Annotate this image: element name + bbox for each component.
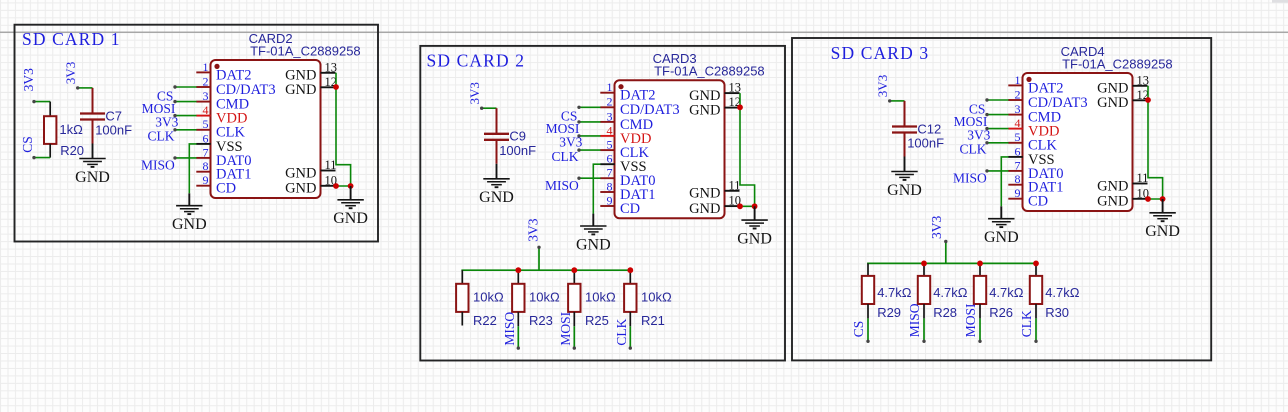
svg-text:R20: R20	[60, 143, 84, 158]
svg-text:13: 13	[325, 60, 338, 74]
CARD2 part name TF-01A_C2889258	[250, 43, 361, 58]
svg-text:4.7kΩ: 4.7kΩ	[989, 285, 1024, 300]
svg-text:CD/DAT3: CD/DAT3	[1028, 95, 1088, 111]
svg-text:R21: R21	[641, 313, 665, 328]
svg-text:11: 11	[325, 158, 337, 172]
svg-text:GND: GND	[1097, 194, 1128, 210]
svg-text:2: 2	[1015, 87, 1021, 101]
svg-text:MISO: MISO	[502, 312, 517, 346]
sd-card connector CARD3 body	[615, 80, 725, 218]
wire CARD2 pin 12 to pin 10 and ground	[336, 73, 351, 186]
ground below C12	[887, 157, 922, 199]
svg-text:DAT2: DAT2	[216, 67, 251, 83]
svg-text:R22: R22	[473, 313, 497, 328]
capacitor C7	[80, 88, 105, 144]
svg-text:3V3: 3V3	[929, 216, 944, 239]
svg-text:10kΩ: 10kΩ	[585, 290, 616, 305]
svg-text:CD/DAT3: CD/DAT3	[216, 82, 276, 98]
svg-text:CLK: CLK	[148, 129, 175, 144]
junction on 3V3 bus at R25	[571, 267, 577, 273]
svg-text:GND: GND	[576, 236, 611, 253]
designator label R30	[1045, 305, 1069, 320]
wire 3V3 bus over resistor network	[461, 269, 630, 271]
svg-text:SD CARD 3: SD CARD 3	[831, 43, 929, 63]
wire CS to R20	[32, 156, 50, 159]
svg-text:3V3: 3V3	[21, 68, 36, 91]
sd-card connector CARD4 body	[1023, 73, 1133, 211]
junction at CARD2 pin 12	[333, 84, 339, 90]
wire MISO below R23	[517, 312, 520, 350]
resistor R25	[568, 270, 580, 312]
svg-text:1: 1	[203, 60, 209, 74]
resistor R23	[512, 270, 524, 312]
designator label R29	[877, 305, 901, 320]
CARD4 pin 2 CD/DAT3	[1008, 87, 1087, 111]
svg-text:GND: GND	[285, 82, 316, 98]
wire CLK to CARD4 pin 5	[985, 141, 1008, 144]
designator CARD3	[653, 51, 697, 66]
svg-text:6: 6	[607, 152, 613, 166]
designator label R28	[933, 305, 957, 320]
resistor R29	[862, 263, 874, 304]
svg-text:MOSI: MOSI	[558, 311, 573, 345]
svg-text:GND: GND	[285, 165, 316, 181]
wire 3V3 tap to bus	[537, 246, 540, 271]
svg-text:GND: GND	[1097, 95, 1128, 111]
wire CARD4 pin 6 VSS to ground	[1001, 157, 1008, 206]
svg-text:SD CARD 1: SD CARD 1	[22, 29, 120, 49]
CARD4 pin 11 GND	[1097, 171, 1148, 194]
svg-text:3V3: 3V3	[63, 62, 78, 84]
svg-text:5: 5	[607, 138, 613, 152]
CARD2 pin 9 CD	[196, 173, 236, 197]
CARD3 part name TF-01A_C2889258	[654, 64, 765, 79]
svg-text:MISO: MISO	[141, 158, 175, 173]
net label 3V3 for C7	[63, 62, 78, 84]
CARD3 pin 8 DAT1	[600, 179, 655, 203]
CARD4 pin 1 DAT2	[1008, 73, 1063, 97]
junction at CARD4 pin 10	[1145, 196, 1151, 202]
value 1k&#937; of R20	[59, 122, 83, 137]
CARD4 pin 5 CLK	[1008, 130, 1057, 154]
CARD2 pin 11 GND	[285, 158, 336, 181]
svg-text:3V3: 3V3	[875, 75, 890, 97]
value 100nF of C9	[499, 143, 536, 158]
wire MISO to CARD3 pin 7 DAT0	[577, 177, 600, 180]
svg-text:8: 8	[607, 179, 613, 193]
net label 3V3 for C12	[875, 75, 890, 97]
svg-text:8: 8	[1015, 172, 1021, 186]
resistor R26	[974, 263, 986, 304]
svg-text:CD: CD	[216, 181, 236, 197]
svg-text:100nF: 100nF	[907, 136, 944, 151]
svg-text:5: 5	[203, 117, 209, 131]
svg-text:GND: GND	[887, 182, 922, 199]
net label CLK	[1019, 310, 1034, 337]
svg-text:9: 9	[203, 173, 209, 187]
svg-text:CD: CD	[620, 201, 640, 217]
wire CARD4 pin 12 to pin 10 and ground	[1148, 86, 1163, 199]
CARD4 pin 10 GND	[1097, 186, 1149, 209]
svg-text:MISO: MISO	[545, 178, 579, 193]
net label MISO	[502, 312, 517, 346]
CARD4 pin 6 VSS	[1008, 144, 1054, 168]
ground below CARD3	[576, 214, 611, 254]
net label MOSI	[963, 303, 978, 337]
CARD4 pin 8 DAT1	[1008, 172, 1063, 196]
svg-text:TF-01A_C2889258: TF-01A_C2889258	[1062, 56, 1173, 71]
wire 3V3 to C7	[76, 86, 93, 89]
svg-text:2: 2	[607, 95, 613, 109]
svg-text:CLK: CLK	[1019, 310, 1034, 337]
wire MISO below R28	[922, 304, 925, 343]
svg-text:GND: GND	[333, 210, 368, 227]
CARD2 pin 4 VDD	[196, 103, 247, 127]
value 10k&#937; of R22	[473, 290, 504, 305]
capacitor C12	[892, 101, 917, 157]
svg-text:CS: CS	[851, 321, 866, 338]
net label 3V3 for C9	[467, 82, 482, 104]
CARD3 pin 2 CD/DAT3	[600, 95, 679, 119]
CARD3 pin 13 GND	[689, 81, 741, 104]
svg-text:8: 8	[203, 159, 209, 173]
svg-text:C9: C9	[509, 129, 526, 144]
ground below CARD2	[172, 193, 207, 233]
ground below C7	[75, 144, 110, 186]
wire MISO to CARD2 pin 7 DAT0	[173, 156, 196, 159]
wire CLK to CARD3 pin 5	[577, 148, 600, 151]
resistor R30	[1030, 263, 1042, 304]
designator label R22	[473, 313, 497, 328]
svg-text:9: 9	[1015, 186, 1021, 200]
CARD2 pin 1 DAT2	[196, 60, 251, 84]
ground below C9	[479, 164, 514, 206]
CARD4 pin-1 marker dot	[1026, 77, 1031, 82]
svg-text:4: 4	[203, 103, 209, 117]
net label 3V3	[967, 127, 990, 142]
net label 3V3	[559, 135, 582, 150]
junction at CARD3 pin 12	[737, 104, 743, 110]
CARD3 pin 3 CMD	[600, 109, 653, 133]
net label CLK	[148, 129, 175, 144]
value 100nF of C7	[95, 123, 132, 138]
svg-text:TF-01A_C2889258: TF-01A_C2889258	[250, 43, 361, 58]
svg-text:DAT2: DAT2	[620, 88, 655, 104]
sheet corner marker top-right	[1272, 0, 1288, 3]
svg-text:13: 13	[1137, 73, 1150, 87]
net label MOSI	[142, 101, 176, 116]
CARD3 pin 11 GND	[689, 178, 740, 201]
net label CLK	[552, 149, 579, 164]
net label MISO	[953, 171, 987, 186]
CARD4 pin 9 CD	[1008, 186, 1048, 210]
wire CLK below R21	[629, 312, 632, 350]
svg-text:7: 7	[607, 166, 613, 180]
svg-text:CLK: CLK	[614, 318, 629, 345]
junction at CARD2 pin 10	[333, 183, 339, 189]
junction at ground tap right of CARD3	[752, 203, 758, 209]
svg-text:R25: R25	[585, 313, 609, 328]
junction at CARD3 pin 10	[737, 203, 743, 209]
svg-text:7: 7	[1015, 158, 1021, 172]
CARD3 pin-1 marker dot	[618, 84, 623, 89]
svg-text:4: 4	[607, 123, 613, 137]
svg-text:GND: GND	[479, 189, 514, 206]
title SD CARD 2	[427, 51, 525, 71]
designator C7	[105, 108, 122, 123]
ground right of CARD3	[737, 206, 772, 247]
svg-text:GND: GND	[285, 181, 316, 197]
net label MISO	[141, 158, 175, 173]
svg-text:3V3: 3V3	[467, 82, 482, 104]
net label 3V3 above network	[526, 218, 541, 241]
svg-text:4.7kΩ: 4.7kΩ	[1045, 285, 1080, 300]
svg-text:3V3: 3V3	[526, 218, 541, 241]
sd-card connector CARD2 body	[211, 60, 321, 198]
svg-text:6: 6	[1015, 144, 1021, 158]
wire MOSI below R26	[978, 304, 981, 343]
svg-text:CD/DAT3: CD/DAT3	[620, 102, 680, 118]
wire CLK to CARD2 pin 5	[173, 128, 196, 131]
svg-text:SD CARD 2: SD CARD 2	[427, 51, 525, 71]
value 10k&#937; of R23	[529, 290, 560, 305]
SD CARD 3 group box	[792, 38, 1211, 360]
svg-text:11: 11	[1137, 171, 1149, 185]
svg-text:5: 5	[1015, 130, 1021, 144]
svg-text:4.7kΩ: 4.7kΩ	[933, 285, 968, 300]
wire 3V3 to C12	[888, 99, 905, 102]
value 4.7k&#937; of R30	[1045, 285, 1080, 300]
wire CARD2 pin 6 VSS to ground	[189, 144, 196, 193]
junction on 3V3 bus at R30	[1033, 261, 1039, 267]
svg-text:GND: GND	[689, 201, 720, 217]
svg-text:3: 3	[1015, 102, 1021, 116]
svg-text:7: 7	[203, 145, 209, 159]
svg-text:MISO: MISO	[907, 303, 922, 337]
svg-text:MOSI: MOSI	[963, 303, 978, 337]
svg-text:C12: C12	[917, 121, 941, 136]
designator label R20	[60, 143, 84, 158]
net label 3V3 above network	[929, 216, 944, 239]
CARD3 pin 4 VDD	[600, 123, 651, 147]
wire MOSI below R25	[573, 312, 576, 350]
svg-text:6: 6	[203, 131, 209, 145]
CARD3 pin 7 DAT0	[600, 166, 655, 190]
value 10k&#937; of R25	[585, 290, 616, 305]
svg-text:3V3: 3V3	[967, 127, 990, 142]
CARD4 pin 4 VDD	[1008, 116, 1059, 140]
net label CLK	[614, 318, 629, 345]
wire CS to CARD4 pin 2	[985, 98, 1008, 101]
svg-text:GND: GND	[737, 230, 772, 247]
svg-text:C7: C7	[105, 108, 122, 123]
designator CARD4	[1061, 44, 1105, 59]
SD CARD 2 group box	[420, 46, 785, 361]
CARD4 pin 13 GND	[1097, 73, 1149, 96]
junction on 3V3 bus at R28	[921, 261, 927, 267]
svg-text:10kΩ: 10kΩ	[473, 290, 504, 305]
svg-text:DAT2: DAT2	[1028, 80, 1063, 96]
junction on 3V3 bus at R21	[627, 267, 633, 273]
svg-text:GND: GND	[689, 186, 720, 202]
designator label R21	[641, 313, 665, 328]
svg-text:100nF: 100nF	[499, 143, 536, 158]
designator label R26	[989, 305, 1013, 320]
wire MOSI to CARD3 pin 3	[577, 120, 600, 123]
svg-text:CLK: CLK	[960, 142, 987, 157]
resistor R20	[44, 102, 56, 158]
CARD2 pin 2 CD/DAT3	[196, 74, 275, 98]
CARD2 pin 13 GND	[285, 60, 337, 83]
CARD3 pin 5 CLK	[600, 138, 649, 162]
value 100nF of C12	[907, 136, 944, 151]
wire 3V3 to CARD4 pin 4 VDD	[985, 127, 1008, 130]
SD CARD 1 group box	[15, 25, 379, 242]
CARD3 pin 1 DAT2	[600, 80, 655, 104]
svg-text:GND: GND	[984, 229, 1019, 246]
wire CS to CARD2 pin 2	[173, 85, 196, 88]
svg-text:3V3: 3V3	[155, 114, 178, 129]
svg-text:GND: GND	[172, 216, 207, 233]
svg-text:9: 9	[607, 193, 613, 207]
svg-text:1: 1	[607, 80, 613, 94]
net label CS	[851, 321, 866, 338]
svg-text:11: 11	[729, 178, 741, 192]
value 4.7k&#937; of R29	[877, 285, 912, 300]
title SD CARD 3	[831, 43, 929, 63]
svg-text:2: 2	[203, 74, 209, 88]
net label MOSI	[546, 121, 580, 136]
junction at CARD4 pin 12	[1145, 97, 1151, 103]
ground below CARD4	[984, 206, 1019, 246]
svg-text:MISO: MISO	[953, 171, 987, 186]
designator label R25	[585, 313, 609, 328]
CARD3 pin 9 CD	[600, 193, 640, 217]
designator C9	[509, 129, 526, 144]
wire 3V3 tap to bus	[944, 240, 947, 264]
net label CS for R20	[20, 136, 35, 153]
svg-text:3: 3	[203, 89, 209, 103]
title SD CARD 1	[22, 29, 120, 49]
wire CARD3 pin 6 VSS to ground	[593, 164, 600, 213]
CARD3 pin 10 GND	[689, 194, 741, 217]
CARD3 pin 6 VSS	[600, 152, 646, 176]
ground right of CARD4	[1145, 199, 1180, 240]
svg-text:R26: R26	[989, 305, 1013, 320]
capacitor C9	[484, 108, 509, 164]
junction on 3V3 bus at R23	[515, 267, 521, 273]
svg-text:1: 1	[1015, 73, 1021, 87]
net label MISO	[545, 178, 579, 193]
wire 3V3 to C9	[480, 107, 497, 110]
svg-text:R28: R28	[933, 305, 957, 320]
svg-text:GND: GND	[75, 169, 110, 186]
CARD2 pin 3 CMD	[196, 89, 249, 113]
svg-text:100nF: 100nF	[95, 123, 132, 138]
CARD2 pin 10 GND	[285, 173, 337, 196]
wire 3V3 to CARD3 pin 4 VDD	[577, 134, 600, 137]
wire CS below R29	[866, 304, 869, 343]
net label MOSI	[954, 114, 988, 129]
svg-text:R29: R29	[877, 305, 901, 320]
resistor R21	[624, 270, 636, 312]
CARD4 pin 3 CMD	[1008, 102, 1061, 126]
wire MOSI to CARD2 pin 3	[173, 100, 196, 103]
svg-text:4.7kΩ: 4.7kΩ	[877, 285, 912, 300]
svg-text:R30: R30	[1045, 305, 1069, 320]
svg-text:R23: R23	[529, 313, 553, 328]
junction at ground tap right of CARD4	[1160, 196, 1166, 202]
svg-text:3V3: 3V3	[559, 135, 582, 150]
CARD3 pin 12 GND	[689, 95, 741, 118]
net label 3V3	[155, 114, 178, 129]
net label CS	[157, 88, 174, 103]
svg-text:3: 3	[607, 109, 613, 123]
svg-text:4: 4	[1015, 116, 1021, 130]
wire MOSI to CARD4 pin 3	[985, 113, 1008, 116]
svg-text:GND: GND	[689, 103, 720, 119]
junction on 3V3 bus at R26	[977, 261, 983, 267]
ground right of CARD2	[333, 186, 368, 227]
resistor R22	[456, 270, 468, 312]
value 4.7k&#937; of R26	[989, 285, 1024, 300]
CARD2 pin 6 VSS	[196, 131, 242, 155]
junction at ground tap right of CARD2	[348, 183, 354, 189]
value 4.7k&#937; of R28	[933, 285, 968, 300]
net label CS	[969, 101, 986, 116]
net label MOSI	[558, 311, 573, 345]
CARD4 pin 7 DAT0	[1008, 158, 1063, 182]
value 10k&#937; of R21	[641, 290, 672, 305]
wire MISO to CARD4 pin 7 DAT0	[985, 169, 1008, 172]
designator CARD2	[249, 31, 293, 46]
CARD2 pin 7 DAT0	[196, 145, 251, 169]
CARD2 pin 12 GND	[285, 75, 337, 98]
CARD2 pin-1 marker dot	[214, 64, 219, 69]
designator label R23	[529, 313, 553, 328]
CARD2 pin 8 DAT1	[196, 159, 251, 183]
net label CLK	[960, 142, 987, 157]
CARD2 pin 5 CLK	[196, 117, 245, 141]
wire 3V3 bus over resistor network	[867, 262, 1036, 264]
sheet border line	[0, 31, 1288, 33]
svg-text:CD: CD	[1028, 194, 1048, 210]
net label MISO	[907, 303, 922, 337]
net label CS	[561, 109, 578, 124]
resistor R28	[918, 263, 930, 304]
CARD4 pin 12 GND	[1097, 88, 1149, 111]
wire CLK below R30	[1034, 304, 1037, 343]
wire CARD3 pin 12 to pin 10 and ground	[740, 93, 755, 206]
svg-text:10kΩ: 10kΩ	[529, 290, 560, 305]
CARD4 part name TF-01A_C2889258	[1062, 56, 1173, 71]
wire 3V3 to R20	[32, 100, 50, 103]
designator C12	[917, 121, 941, 136]
wire 3V3 to CARD2 pin 4 VDD	[173, 114, 196, 117]
svg-text:1kΩ: 1kΩ	[59, 122, 83, 137]
net label 3V3 for R20	[21, 68, 36, 91]
svg-text:GND: GND	[1097, 178, 1128, 194]
svg-text:GND: GND	[1145, 223, 1180, 240]
wire CS to CARD3 pin 2	[577, 106, 600, 109]
bottom lead of R22 (unconnected)	[461, 312, 463, 326]
svg-text:13: 13	[729, 81, 742, 95]
svg-text:TF-01A_C2889258: TF-01A_C2889258	[654, 64, 765, 79]
svg-text:CS: CS	[20, 136, 35, 153]
svg-text:CLK: CLK	[552, 149, 579, 164]
svg-text:10kΩ: 10kΩ	[641, 290, 672, 305]
